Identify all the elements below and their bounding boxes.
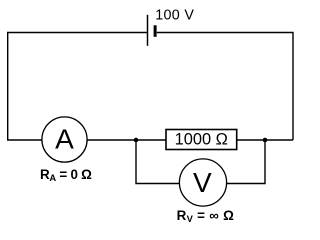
svg-text:A: A xyxy=(55,124,74,155)
svg-text:100 V: 100 V xyxy=(155,8,194,24)
battery B1 short thick plate xyxy=(154,25,157,37)
voltmeter V1 circle xyxy=(179,159,226,206)
wire: left bottom to ammeter xyxy=(7,139,42,141)
svg-text:RV = ∞ Ω: RV = ∞ Ω xyxy=(177,208,235,224)
wire: battery to top-right corner and down right side xyxy=(157,33,293,141)
svg-text:1000 Ω: 1000 Ω xyxy=(175,131,228,149)
battery B1 long plate xyxy=(147,15,149,46)
wire: top-left segment to battery xyxy=(8,33,148,141)
node: left junction xyxy=(134,138,139,143)
wire: resistor to right side xyxy=(237,139,293,141)
wire: left junction down to voltmeter xyxy=(136,140,179,184)
svg-text:RA = 0 Ω: RA = 0 Ω xyxy=(40,167,92,183)
wire: ammeter to resistor xyxy=(87,139,166,141)
svg-text:V: V xyxy=(193,167,212,198)
resistor R box xyxy=(166,130,237,150)
node: right junction xyxy=(263,138,268,143)
ammeter A1 circle xyxy=(42,117,87,162)
wire: right junction down to voltmeter xyxy=(227,140,265,184)
